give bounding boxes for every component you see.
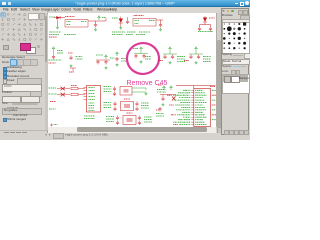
origin cross <box>50 124 58 127</box>
left toolbox panel <box>0 13 48 137</box>
capacitor C6 cluster <box>68 53 83 68</box>
crystal Y2 cluster <box>104 99 150 111</box>
brush dot grid <box>221 21 249 53</box>
capacitor C4 <box>198 27 201 31</box>
crystal Y3 cluster <box>106 113 152 125</box>
horizontal scrollbar <box>48 127 216 133</box>
dock titlebar <box>222 9 225 13</box>
dock tab row <box>222 14 233 17</box>
net USB_DP label <box>49 93 57 95</box>
wire D3 top <box>204 16 206 18</box>
net label GND bottom-left <box>49 108 56 110</box>
capacitor C1 <box>94 23 97 27</box>
tool options scrollbar <box>45 14 48 130</box>
microcontroller U2 <box>167 89 210 127</box>
resistor R11 <box>71 93 85 95</box>
layers list <box>222 74 251 94</box>
diode D3 <box>203 18 215 23</box>
capacitor C7 cluster <box>96 55 110 70</box>
label VIN <box>49 16 55 18</box>
labels under P1 <box>49 60 62 63</box>
labels C4 C5 <box>198 31 213 33</box>
capacitor C2 <box>126 17 129 24</box>
status bar <box>0 133 250 141</box>
vertical scrollbar <box>216 13 223 127</box>
labels right of U2 <box>212 89 216 91</box>
ground C1 <box>94 28 97 31</box>
USB connector J1 <box>84 86 101 113</box>
wire IC1 out <box>88 21 106 23</box>
capacitor C5 <box>209 27 212 31</box>
wire stub right <box>105 18 107 21</box>
ground D2 <box>119 27 122 30</box>
capacitor C9 cluster <box>158 47 185 64</box>
spacing slider <box>222 53 232 56</box>
net labels block A <box>49 32 76 37</box>
brush grid <box>222 22 251 55</box>
wire D3 branches <box>200 22 211 27</box>
resistor R10 <box>71 86 85 90</box>
diode D1 <box>56 16 60 19</box>
ESD array X1 <box>57 87 70 97</box>
crystal Y1 cluster <box>104 87 148 96</box>
supply arrows U2 <box>157 85 172 92</box>
ground C3 <box>159 28 162 31</box>
net labels block B <box>112 32 150 35</box>
label R12 <box>50 101 56 103</box>
wire IC2 out <box>156 20 163 23</box>
opacity slider <box>222 65 231 68</box>
lock row <box>222 70 229 73</box>
wire D2 down <box>120 23 122 27</box>
panel footer buttons <box>0 130 48 137</box>
net USB_DM label <box>49 87 57 89</box>
canvas white area <box>48 13 216 127</box>
label D2 <box>112 17 118 19</box>
transistor Q1 <box>69 68 76 72</box>
menu bar <box>0 7 250 14</box>
capacitor C3 <box>159 23 162 27</box>
net wire to U2 <box>176 86 216 89</box>
wire VIN <box>54 17 65 19</box>
regulator IC1 <box>65 17 88 28</box>
capacitor C10 cluster <box>184 47 211 64</box>
right brushes/layers dock <box>221 8 249 135</box>
brush filter entry <box>222 19 251 24</box>
supply +5V <box>98 16 106 20</box>
capacitor C45 circled cluster <box>133 47 151 64</box>
dock footer buttons <box>224 130 229 135</box>
label USB_MICRO <box>84 116 95 119</box>
window title bar <box>0 0 250 7</box>
wire D1 down <box>57 20 59 27</box>
tool options area <box>0 54 44 57</box>
layers mode combo <box>222 59 251 66</box>
wire D2 top <box>120 17 122 19</box>
tool icon grid <box>0 12 46 43</box>
ground D1 <box>56 26 59 29</box>
capacitor C8 cluster <box>110 52 127 67</box>
FG/BG color swatches <box>26 47 37 55</box>
regulator IC2 <box>133 16 156 27</box>
diode D2 <box>119 19 123 24</box>
label right of wire <box>210 86 215 88</box>
svg-text:Remove C45: Remove C45 <box>127 80 168 87</box>
annotation ellipse <box>125 41 161 75</box>
supply P1 cluster <box>52 47 63 60</box>
decoupling caps U2 <box>156 95 176 117</box>
